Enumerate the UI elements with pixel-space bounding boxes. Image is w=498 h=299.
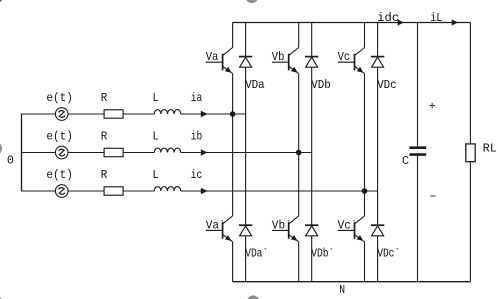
inductor L phase c xyxy=(154,187,180,191)
inductor L phase b xyxy=(154,148,180,152)
wire phase c: resistor to inductor xyxy=(123,190,154,192)
wire phase c: inductor to bridge xyxy=(181,190,378,192)
wire phase b: inductor to bridge xyxy=(181,152,312,154)
wire: diode leg VDa vertical xyxy=(245,23,247,282)
wire phase a: resistor to inductor xyxy=(123,113,154,115)
corner mark top-left xyxy=(0,0,2,2)
decorative gray dot left xyxy=(0,142,2,155)
svg-text:L: L xyxy=(152,168,159,182)
AC source e(t) phase a xyxy=(55,108,68,121)
svg-text:N: N xyxy=(339,283,345,297)
wire: diode leg VDb vertical xyxy=(311,23,313,282)
wire: left vertical bus (node 0) xyxy=(21,114,23,192)
diode VDc` xyxy=(371,225,384,236)
current arrow ib xyxy=(201,149,208,156)
wire: load branch lower xyxy=(469,162,471,282)
diode VDb xyxy=(305,57,318,68)
diode VDa` xyxy=(239,225,252,236)
svg-text:idc: idc xyxy=(377,11,399,25)
svg-text:VDa`: VDa` xyxy=(245,246,268,260)
wire: capacitor branch lower xyxy=(417,156,419,282)
svg-text:Vb`: Vb` xyxy=(272,218,292,232)
inductor L phase a xyxy=(154,110,180,114)
wire phase c: source to resistor xyxy=(68,190,104,192)
svg-text:VDb`: VDb` xyxy=(311,246,334,260)
svg-text:C: C xyxy=(402,154,409,168)
decorative gray dot top xyxy=(245,0,258,3)
transistor Va xyxy=(206,23,233,74)
current arrow iL xyxy=(452,19,458,25)
transistor Vb xyxy=(272,23,299,74)
svg-text:L: L xyxy=(152,91,159,105)
transistor Vc xyxy=(338,23,365,74)
wire: emitter vertical Vb` to bottom bus xyxy=(298,242,300,282)
svg-text:VDc`: VDc` xyxy=(377,246,400,260)
svg-text:+: + xyxy=(429,99,436,113)
svg-text:Va: Va xyxy=(206,50,219,64)
svg-text:ic: ic xyxy=(191,168,203,182)
AC source e(t) phase b xyxy=(55,146,68,159)
wire: emitter/collector vertical Vc mid xyxy=(364,74,366,216)
wire: emitter vertical Va` to bottom bus xyxy=(232,242,234,282)
diode VDa xyxy=(239,57,252,68)
capacitor C xyxy=(410,148,427,155)
transistor Vb` xyxy=(272,216,299,242)
svg-text:iL: iL xyxy=(430,11,442,25)
wire: load branch upper xyxy=(469,23,471,144)
transistor Va` xyxy=(206,216,233,242)
svg-text:e(t): e(t) xyxy=(46,130,73,144)
svg-text:e(t): e(t) xyxy=(46,91,73,105)
current arrow idc xyxy=(398,19,404,25)
transistor Vc` xyxy=(338,216,365,242)
svg-text:ib: ib xyxy=(191,130,203,144)
wire: emitter vertical Vc` to bottom bus xyxy=(364,242,366,282)
svg-text:R: R xyxy=(101,91,108,105)
current arrow ic xyxy=(201,188,208,195)
svg-text:Vb: Vb xyxy=(272,50,285,64)
svg-text:ia: ia xyxy=(191,91,203,105)
wire phase a: inductor to bridge xyxy=(181,113,246,115)
wire: emitter/collector vertical Va mid xyxy=(232,74,234,216)
diode VDb` xyxy=(305,225,318,236)
svg-text:VDa: VDa xyxy=(245,78,265,92)
svg-text:R: R xyxy=(101,168,108,182)
svg-text:VDb: VDb xyxy=(311,78,331,92)
wire: top DC bus xyxy=(233,22,471,24)
diode VDc xyxy=(371,57,384,68)
junction node phase c xyxy=(362,188,368,194)
AC source e(t) phase c xyxy=(55,185,68,198)
resistor RL xyxy=(466,144,475,162)
svg-text:Vc: Vc xyxy=(338,50,351,64)
wire phase b: bus to source xyxy=(22,152,56,154)
svg-text:Va`: Va` xyxy=(206,218,226,232)
svg-text:−: − xyxy=(430,190,437,204)
wire: bottom DC bus (N) xyxy=(233,281,471,283)
resistor R phase a xyxy=(104,110,123,118)
resistor R phase b xyxy=(104,148,123,156)
svg-text:0: 0 xyxy=(7,154,14,168)
decorative gray dot bottom xyxy=(247,295,260,299)
svg-text:e(t): e(t) xyxy=(46,168,73,182)
wire phase a: source to resistor xyxy=(68,113,104,115)
wire: emitter/collector vertical Vb mid xyxy=(298,74,300,216)
svg-text:VDc: VDc xyxy=(377,78,397,92)
wire: capacitor branch upper xyxy=(417,23,419,147)
svg-text:Vc`: Vc` xyxy=(338,218,358,232)
wire phase a: bus to source xyxy=(22,113,56,115)
junction node phase b xyxy=(296,150,302,156)
wire: diode leg VDc vertical xyxy=(377,23,379,282)
resistor R phase c xyxy=(104,187,123,195)
current arrow ia xyxy=(201,111,208,118)
wire phase b: source to resistor xyxy=(68,152,104,154)
corner mark bottom-left xyxy=(0,297,1,299)
svg-text:L: L xyxy=(152,130,159,144)
wire phase b: resistor to inductor xyxy=(123,152,154,154)
svg-text:R: R xyxy=(101,130,108,144)
wire phase c: bus to source xyxy=(22,190,56,192)
junction node phase a xyxy=(230,111,236,117)
svg-text:RL: RL xyxy=(483,142,497,156)
